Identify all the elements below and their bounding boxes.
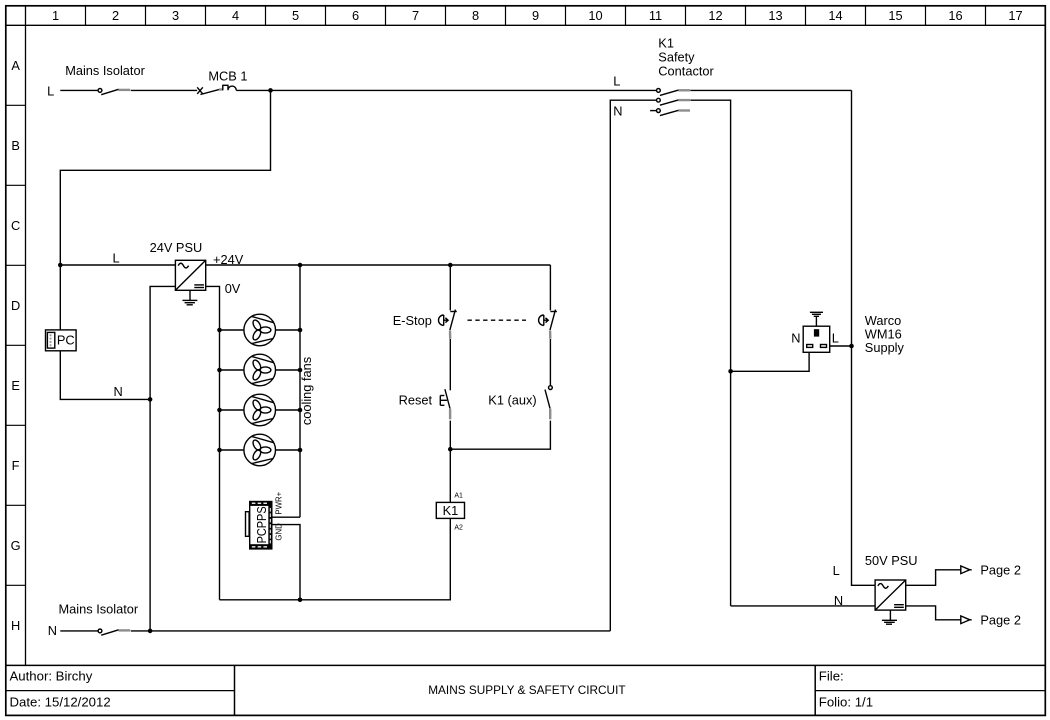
svg-text:MAINS SUPPLY & SAFETY CIRCUIT: MAINS SUPPLY & SAFETY CIRCUIT bbox=[428, 683, 625, 697]
mechanical link (dashed) bbox=[468, 319, 527, 321]
wire N rail to riser bbox=[131, 630, 611, 632]
24V PSU converter U1 bbox=[175, 260, 205, 290]
svg-text:PCPPS: PCPPS bbox=[254, 506, 269, 543]
label K1 Safety Contactor bbox=[658, 35, 714, 78]
svg-text:13: 13 bbox=[768, 8, 782, 23]
junction N rail at PSU drop bbox=[148, 629, 153, 634]
wire PCPPS PWR+ to +24V bus bbox=[273, 516, 301, 518]
svg-text:N: N bbox=[114, 384, 123, 399]
svg-text:50V PSU: 50V PSU bbox=[865, 553, 918, 568]
svg-text:A2: A2 bbox=[454, 524, 463, 531]
junction +24V at fan bus bbox=[298, 263, 303, 268]
wire socket N to N drop bbox=[731, 352, 810, 371]
wire N from 24V PSU down to bottom N rail bbox=[150, 286, 175, 631]
svg-text:cooling fans: cooling fans bbox=[299, 357, 314, 425]
svg-text:Author: Birchy: Author: Birchy bbox=[10, 669, 93, 684]
svg-text:E: E bbox=[11, 378, 20, 393]
junction GND on 0V rail bbox=[298, 598, 303, 603]
wire PCPPS GND to 0V rail bbox=[273, 525, 301, 600]
PC box bbox=[46, 330, 77, 351]
svg-text:B: B bbox=[11, 138, 20, 153]
svg-text:PC: PC bbox=[57, 333, 75, 348]
svg-text:MCB 1: MCB 1 bbox=[208, 69, 247, 84]
junction at PSU L feed bbox=[58, 263, 63, 268]
svg-text:Folio: 1/1: Folio: 1/1 bbox=[819, 695, 873, 710]
wire 50V PSU output 1 bbox=[906, 570, 961, 586]
junction on L rail bbox=[268, 88, 273, 93]
svg-text:L: L bbox=[832, 330, 839, 345]
junction Warco N tap bbox=[728, 369, 733, 374]
title block bbox=[10, 669, 874, 710]
svg-text:2: 2 bbox=[112, 8, 119, 23]
svg-text:9: 9 bbox=[532, 8, 539, 23]
svg-text:3: 3 bbox=[172, 8, 179, 23]
mains isolator switch, N pole bbox=[98, 629, 130, 635]
junction at N riser bbox=[148, 397, 153, 402]
svg-text:C: C bbox=[11, 218, 20, 233]
wire contactor N out down right side bbox=[690, 100, 730, 606]
wire L to isolator bbox=[60, 89, 98, 91]
svg-text:10: 10 bbox=[588, 8, 602, 23]
svg-text:8: 8 bbox=[472, 8, 479, 23]
svg-text:Reset: Reset bbox=[399, 393, 433, 408]
wire 0V bottom rail up to K1 A2 bbox=[220, 518, 451, 599]
wire L drop to 50V PSU bbox=[852, 90, 876, 585]
svg-text:L: L bbox=[833, 563, 840, 578]
svg-text:16: 16 bbox=[948, 8, 962, 23]
svg-text:H: H bbox=[11, 618, 20, 633]
svg-text:Safety: Safety bbox=[658, 49, 695, 64]
svg-text:GND: GND bbox=[275, 523, 284, 541]
e-stop contact 2 (NC) bbox=[539, 310, 557, 339]
wire 50V PSU output 2 bbox=[906, 606, 961, 620]
page link out 2 bbox=[961, 616, 972, 624]
svg-text:12: 12 bbox=[708, 8, 722, 23]
svg-text:D: D bbox=[11, 298, 20, 313]
svg-text:17: 17 bbox=[1008, 8, 1022, 23]
50V PSU converter U2 bbox=[875, 580, 906, 610]
svg-text:F: F bbox=[12, 458, 20, 473]
svg-text:1: 1 bbox=[52, 8, 59, 23]
contactor K1 pole 2 (N) bbox=[657, 98, 691, 105]
cooling fan M4 bbox=[217, 434, 302, 466]
wire 0V from PSU down left fan bus to bottom 0V rail bbox=[206, 286, 220, 599]
svg-text:N: N bbox=[613, 104, 622, 119]
svg-text:A1: A1 bbox=[454, 492, 463, 499]
svg-text:11: 11 bbox=[649, 8, 662, 23]
svg-text:Date: 15/12/2012: Date: 15/12/2012 bbox=[10, 695, 111, 710]
svg-text:N: N bbox=[791, 330, 800, 345]
junction Warco L tap bbox=[849, 344, 854, 349]
svg-text:K1 (aux): K1 (aux) bbox=[488, 392, 536, 407]
svg-text:7: 7 bbox=[412, 8, 419, 23]
wire e-stop1 to reset bbox=[449, 339, 451, 390]
earth at Warco socket bbox=[810, 312, 823, 326]
wire e-stop2 to K1 aux bbox=[549, 339, 551, 386]
svg-text:PWR+: PWR+ bbox=[275, 491, 284, 514]
svg-text:Page 2: Page 2 bbox=[980, 562, 1021, 577]
wire junction to K1 coil bbox=[449, 449, 451, 502]
svg-text:Contactor: Contactor bbox=[658, 64, 714, 79]
svg-text:E-Stop: E-Stop bbox=[393, 313, 432, 328]
svg-text:L: L bbox=[47, 84, 54, 99]
cooling fan M1 bbox=[217, 314, 302, 346]
wire PC to N node bbox=[60, 351, 150, 400]
wire isolator to MCB bbox=[131, 89, 197, 91]
svg-text:A: A bbox=[11, 58, 20, 73]
svg-text:K1: K1 bbox=[443, 503, 459, 518]
svg-text:6: 6 bbox=[352, 8, 359, 23]
svg-text:G: G bbox=[11, 538, 21, 553]
reset push button (NO) bbox=[440, 389, 450, 419]
contactor K1 pole 1 (L) bbox=[657, 89, 691, 96]
svg-text:N: N bbox=[48, 623, 57, 638]
svg-text:L: L bbox=[613, 73, 620, 88]
wire K1 aux to bottom join bbox=[450, 421, 550, 450]
ground at 24V PSU bbox=[183, 290, 198, 305]
wire down to PC bbox=[59, 265, 61, 330]
mains isolator switch, L pole bbox=[98, 89, 130, 95]
wire reset to junction bbox=[449, 421, 451, 450]
junction below reset bbox=[448, 447, 453, 452]
wire branch down to 24V PSU feed bbox=[60, 90, 270, 265]
svg-text:Supply: Supply bbox=[865, 340, 905, 355]
wire L feed to 24V PSU bbox=[60, 264, 175, 266]
svg-text:15: 15 bbox=[888, 8, 902, 23]
wire +24V rail corner to e-stop 2 bbox=[549, 265, 551, 310]
wire +24V rail bbox=[206, 264, 551, 266]
svg-text:5: 5 bbox=[292, 8, 299, 23]
ground at 50V PSU bbox=[882, 610, 897, 624]
wire N to isolator bbox=[60, 630, 98, 632]
wire +24V to E-Stop bbox=[449, 265, 451, 310]
svg-text:14: 14 bbox=[828, 8, 842, 23]
svg-text:L: L bbox=[113, 250, 120, 265]
cooling fan M3 bbox=[217, 394, 302, 426]
Warco socket outlet bbox=[803, 326, 830, 352]
svg-text:0V: 0V bbox=[225, 281, 241, 296]
cooling fan M2 bbox=[217, 354, 302, 386]
wire N riser from bottom rail to contactor bbox=[610, 100, 656, 631]
MCB 1 breaker bbox=[197, 85, 236, 94]
contactor K1 pole 3 (spare) bbox=[650, 109, 690, 116]
wire contactor L out to right drop bbox=[690, 89, 851, 91]
svg-text:Mains Isolator: Mains Isolator bbox=[65, 63, 145, 78]
junction +24V at e-stop branch bbox=[448, 263, 453, 268]
PCPPS module bbox=[246, 501, 273, 550]
relay contact K1 aux (NO) bbox=[545, 386, 552, 420]
label Warco WM16 Supply bbox=[865, 313, 905, 355]
svg-text:24V PSU: 24V PSU bbox=[150, 240, 203, 255]
e-stop contact 1 (NC) bbox=[439, 310, 457, 339]
svg-text:4: 4 bbox=[232, 8, 239, 23]
wire N rail to 50V PSU bbox=[731, 605, 876, 607]
svg-text:K1: K1 bbox=[658, 35, 674, 50]
svg-text:File:: File: bbox=[819, 669, 844, 684]
relay coil K1 bbox=[436, 502, 464, 518]
wire L rail to contactor bbox=[236, 89, 656, 91]
wire +24V fan bus (right) bbox=[299, 265, 301, 517]
wire socket L to drop bbox=[830, 345, 852, 347]
page link out 1 bbox=[961, 566, 972, 574]
svg-text:Page 2: Page 2 bbox=[980, 612, 1021, 627]
svg-text:Mains Isolator: Mains Isolator bbox=[59, 602, 139, 617]
